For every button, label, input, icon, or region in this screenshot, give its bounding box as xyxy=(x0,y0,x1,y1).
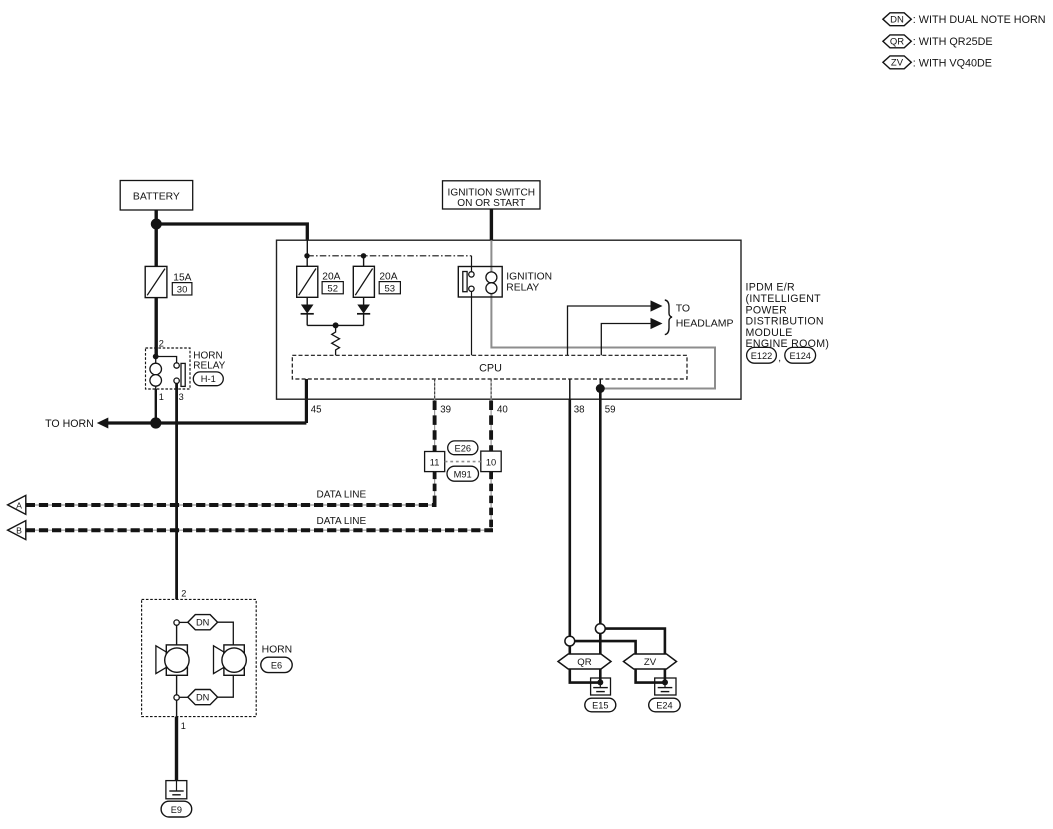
wire pin 11 to data line A dashes xyxy=(433,472,437,505)
label IPDM block xyxy=(746,282,830,351)
fuse 20A 53 xyxy=(353,266,374,297)
svg-text:E15: E15 xyxy=(592,700,608,710)
connector M91 oval xyxy=(447,466,479,481)
wire pin 10 to data line B (grey core) xyxy=(490,472,492,530)
svg-text:E26: E26 xyxy=(455,443,472,453)
svg-text:1: 1 xyxy=(181,721,186,731)
svg-text:2: 2 xyxy=(159,338,164,348)
svg-text:RELAY: RELAY xyxy=(506,282,539,293)
node option split 59 xyxy=(595,624,605,634)
node fuse 53 tap xyxy=(361,253,366,258)
horn assembly box E6 xyxy=(142,599,257,716)
svg-text:DISTRIBUTION: DISTRIBUTION xyxy=(746,316,824,328)
wire pin 39 CAN upper dotted xyxy=(434,379,436,400)
wire pin 40 CAN (grey core) xyxy=(490,379,492,451)
svg-text:TO HORN: TO HORN xyxy=(45,418,94,430)
node horn split top xyxy=(174,620,179,625)
svg-text:H-1: H-1 xyxy=(201,374,216,384)
node pin 59 junction xyxy=(596,384,605,393)
connector pin 10 box xyxy=(481,451,501,472)
wire feed inside IPDM xyxy=(306,240,308,256)
wire battery bus to IPDM xyxy=(156,224,307,240)
wire pin 59 xyxy=(599,389,602,624)
wire 38 QR branch xyxy=(570,646,601,683)
wire battery drop xyxy=(154,210,157,224)
legend QR hexagon xyxy=(883,35,911,48)
arrow headlamp 2 xyxy=(651,318,663,329)
svg-text:39: 39 xyxy=(440,405,451,416)
wire headlamp 2 xyxy=(601,324,651,356)
wire diode link xyxy=(307,324,363,326)
connector pin 11 box xyxy=(425,452,445,472)
svg-text:MODULE: MODULE xyxy=(746,327,793,339)
wire pin 40 CAN dashes xyxy=(489,401,493,452)
svg-text:B: B xyxy=(16,526,22,536)
relay IGNITION RELAY box xyxy=(458,267,502,298)
node horn split bottom xyxy=(174,695,179,700)
label 30 box xyxy=(172,283,192,296)
ground E24 xyxy=(655,678,676,695)
CPU box xyxy=(292,355,687,379)
wire pin 38 xyxy=(568,399,571,636)
svg-text:10: 10 xyxy=(486,457,496,467)
wire pin 40 CAN upper dotted xyxy=(490,379,492,400)
connector E124 oval xyxy=(785,347,816,363)
connector DN2 hexagon xyxy=(188,690,218,705)
label 52 box xyxy=(322,282,343,295)
svg-text:IGNITION SWITCH: IGNITION SWITCH xyxy=(448,187,535,198)
connector QR hexagon xyxy=(558,654,611,669)
horn relay coil xyxy=(150,357,162,390)
connector E24 oval xyxy=(649,698,681,712)
data line A dashes xyxy=(26,503,437,507)
connector E15 oval xyxy=(585,698,616,712)
svg-text:QR: QR xyxy=(577,657,591,668)
node A arrow xyxy=(8,495,26,514)
wire to horn run xyxy=(108,421,307,424)
label 53 box xyxy=(379,282,400,295)
connector E26 oval xyxy=(448,441,478,455)
horn relay contact xyxy=(156,357,186,387)
wire DN1 link xyxy=(179,621,188,623)
svg-text:53: 53 xyxy=(385,284,396,295)
svg-text:1: 1 xyxy=(159,392,164,402)
svg-text:ON OR START: ON OR START xyxy=(457,198,525,209)
relay HORN RELAY box xyxy=(146,348,191,389)
wire pin 11 to data line A (grey core) xyxy=(434,472,436,505)
legend DN hexagon xyxy=(883,13,911,26)
brace to headlamp xyxy=(665,300,672,335)
svg-text:HEADLAMP: HEADLAMP xyxy=(676,317,734,329)
data line A (grey core) xyxy=(26,504,437,506)
wire fuse 15A to horn relay xyxy=(154,298,157,357)
resistor to CPU xyxy=(332,325,340,355)
svg-text:DN: DN xyxy=(196,618,209,628)
wire 59 QR branch xyxy=(599,634,602,683)
svg-text:: WITH QR25DE: : WITH QR25DE xyxy=(913,36,993,48)
label TO HEADLAMP xyxy=(676,302,734,329)
svg-text:TO: TO xyxy=(676,302,690,314)
svg-text:DATA LINE: DATA LINE xyxy=(317,516,367,527)
wire horn internal left xyxy=(176,625,178,716)
node fuse 52 tap xyxy=(304,253,309,258)
svg-text:DATA LINE: DATA LINE xyxy=(317,489,367,500)
svg-text:POWER: POWER xyxy=(746,304,788,316)
wire tap to fuse 53 xyxy=(363,256,365,266)
node battery junction xyxy=(151,219,162,230)
wire battery to fuse 15A xyxy=(154,224,157,266)
wire dash-dot fuse bus xyxy=(307,255,471,257)
connector H-1 oval xyxy=(193,372,223,386)
svg-text:52: 52 xyxy=(327,284,338,295)
node horn relay coil top xyxy=(153,354,159,360)
wire pin 10 to data line B dashes xyxy=(489,472,493,530)
node diode link junction xyxy=(333,322,339,328)
wire horn relay pin 1 down xyxy=(155,389,157,423)
legend ZV hexagon xyxy=(883,56,911,69)
wire DN1 to right horn xyxy=(218,622,234,646)
wire pin 59 upper xyxy=(599,379,601,389)
svg-text:(INTELLIGENT: (INTELLIGENT xyxy=(746,293,822,305)
svg-text:E24: E24 xyxy=(656,700,672,710)
horn L (speaker) xyxy=(156,645,189,675)
svg-text:59: 59 xyxy=(605,405,616,416)
horn R (speaker) xyxy=(214,645,247,675)
svg-text:38: 38 xyxy=(574,405,585,416)
svg-text:CPU: CPU xyxy=(479,363,502,375)
wire tap to fuse 52 xyxy=(306,256,308,266)
label HORN RELAY xyxy=(193,350,225,371)
wire 59 ZV branch xyxy=(605,629,665,683)
wire 38 ZV branch xyxy=(575,641,665,683)
diode D1 under fuse 52 xyxy=(301,297,314,325)
svg-text:ZV: ZV xyxy=(891,58,904,69)
svg-text:RELAY: RELAY xyxy=(193,360,225,371)
svg-text:BATTERY: BATTERY xyxy=(133,191,180,202)
node B arrow xyxy=(8,521,26,540)
svg-text:E122: E122 xyxy=(751,351,772,361)
wire dotted connector link xyxy=(445,461,481,463)
wire pin 45 xyxy=(305,379,308,423)
connector E6 oval xyxy=(261,657,292,672)
data line B dashes xyxy=(26,528,493,532)
wire horn to ground xyxy=(175,717,178,781)
ignition switch xyxy=(443,181,541,209)
IPDM E/R box xyxy=(277,240,742,399)
svg-text:,: , xyxy=(778,353,781,364)
wire horn relay pin 3 to horn xyxy=(175,383,178,599)
wire headlamp 1 xyxy=(568,306,652,355)
svg-text:E6: E6 xyxy=(271,661,282,671)
diode D2 under fuse 53 xyxy=(357,297,370,325)
wire pin 38 upper xyxy=(569,379,571,399)
svg-text:IPDM E/R: IPDM E/R xyxy=(746,282,796,294)
wire right horn to DN2 xyxy=(218,675,234,697)
connector DN1 hexagon xyxy=(188,615,218,630)
ground E15 xyxy=(591,678,611,695)
svg-text:11: 11 xyxy=(430,457,440,467)
svg-text:3: 3 xyxy=(179,392,184,402)
fuse 15A xyxy=(145,266,167,297)
wire DN2 link xyxy=(179,696,188,698)
battery xyxy=(120,181,193,211)
wire ignition relay coil path (grey) xyxy=(491,240,715,388)
svg-text:DN: DN xyxy=(890,15,904,26)
connector E9 oval xyxy=(161,801,192,817)
wire ignition relay contact to CPU xyxy=(471,292,473,356)
svg-text:15A: 15A xyxy=(173,273,191,284)
connector E122 oval xyxy=(747,347,777,363)
label IGNITION RELAY xyxy=(506,271,552,293)
svg-text:ZV: ZV xyxy=(644,657,657,668)
svg-text:A: A xyxy=(16,500,22,510)
svg-text:E124: E124 xyxy=(789,351,810,361)
wire ignition feed (thick) xyxy=(490,209,493,240)
svg-text:IGNITION: IGNITION xyxy=(506,271,552,282)
svg-text:: WITH VQ40DE: : WITH VQ40DE xyxy=(913,57,992,69)
wire pin 39 CAN (grey core) xyxy=(434,379,436,452)
node to-horn junction xyxy=(150,417,161,428)
svg-text:40: 40 xyxy=(497,405,508,416)
svg-text:30: 30 xyxy=(177,285,188,296)
fuse 20A 52 xyxy=(297,266,318,297)
node option split 38 xyxy=(565,636,575,646)
data line B (grey core) xyxy=(26,529,493,531)
svg-text:45: 45 xyxy=(311,405,322,416)
svg-text:: WITH DUAL NOTE HORN: : WITH DUAL NOTE HORN xyxy=(913,14,1046,26)
svg-text:HORN: HORN xyxy=(262,645,293,656)
wire pin 39 CAN dashes xyxy=(433,401,437,452)
arrow headlamp 1 xyxy=(651,300,663,311)
ignition relay contact xyxy=(463,256,474,292)
svg-text:DN: DN xyxy=(196,693,209,703)
ground E9 xyxy=(166,781,187,799)
svg-text:M91: M91 xyxy=(454,470,472,480)
svg-text:2: 2 xyxy=(181,589,186,599)
connector ZV hexagon xyxy=(624,654,677,669)
svg-text:QR: QR xyxy=(890,37,904,48)
svg-text:E9: E9 xyxy=(171,805,182,815)
ignition relay coil xyxy=(486,272,497,294)
arrow to horn xyxy=(97,418,109,429)
